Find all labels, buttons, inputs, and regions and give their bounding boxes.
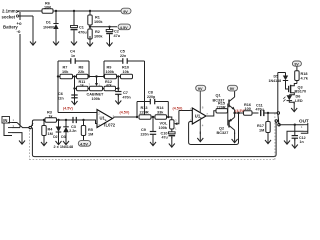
ground	[197, 132, 203, 142]
svg-text:1k: 1k	[80, 84, 84, 88]
ground	[87, 36, 93, 46]
svg-text:220R: 220R	[217, 105, 226, 109]
svg-text:IN: IN	[3, 118, 7, 123]
wire switch to OUT tip	[279, 124, 304, 126]
svg-text:1M: 1M	[259, 129, 264, 133]
svg-text:4.5V: 4.5V	[120, 26, 128, 30]
svg-text:C8: C8	[148, 91, 153, 95]
ground	[169, 137, 175, 147]
resistor R3 1k	[45, 111, 57, 123]
jack J2 OUT	[299, 118, 309, 133]
DC power socket label	[2, 9, 19, 20]
capacitor C8 220p	[147, 91, 156, 105]
svg-text:b: b	[200, 116, 202, 120]
svg-text:9V: 9V	[123, 10, 128, 14]
svg-text:R9: R9	[107, 66, 112, 70]
capacitor C9 220n	[141, 117, 157, 137]
resistor R2 100k	[88, 29, 104, 39]
node R right bridged-T	[104, 61, 145, 117]
svg-text:22n: 22n	[120, 54, 126, 58]
node: 9V rail wire top	[17, 10, 121, 12]
capacitor C6 22n	[58, 92, 78, 101]
wire pin4 to ground	[200, 120, 204, 135]
svg-text:(4.5V): (4.5V)	[120, 111, 131, 115]
net label 9V oval U1b supply	[196, 85, 206, 91]
diode D2 1N4148	[53, 120, 61, 139]
svg-text:R7: R7	[63, 66, 68, 70]
footswitch S1a input side	[29, 120, 44, 129]
svg-text:10R: 10R	[44, 6, 51, 10]
svg-text:33k: 33k	[157, 111, 164, 115]
svg-text:100k: 100k	[106, 70, 115, 74]
svg-text:47u: 47u	[114, 34, 121, 38]
net label 4.5V oval (bias)	[78, 141, 91, 147]
wire pin3 jog	[94, 120, 97, 124]
svg-text:1n: 1n	[300, 140, 304, 144]
ground	[53, 35, 59, 45]
annotation 4.5V red output U1a	[120, 111, 131, 115]
ground	[63, 135, 69, 145]
svg-text:220p: 220p	[147, 95, 156, 99]
resistor R12 47k	[103, 80, 119, 91]
svg-text:R18: R18	[301, 72, 308, 76]
wire feedback loop U1b	[189, 112, 240, 145]
svg-text:BC327: BC327	[217, 131, 229, 135]
svg-text:LED: LED	[295, 99, 303, 103]
resistor R1 100k	[88, 11, 104, 29]
resistor R9 100k	[105, 66, 117, 79]
wire socket sleeve	[19, 16, 33, 36]
svg-text:(4.5V): (4.5V)	[173, 107, 184, 111]
label 2 x 1N4148	[54, 145, 74, 149]
op-amp U1b TL072	[190, 107, 209, 124]
svg-text:100: 100	[245, 107, 251, 111]
wire inverting input feedback	[58, 112, 97, 114]
svg-text:9V: 9V	[294, 63, 299, 67]
svg-text:C9: C9	[141, 128, 146, 132]
wire right T leg	[117, 77, 119, 92]
wire bypass down from switch	[32, 122, 276, 157]
wire left T leg	[73, 77, 75, 96]
svg-text:220R: 220R	[140, 111, 149, 115]
resistor R7 10k	[60, 66, 73, 79]
wire jack sleeve to ground	[12, 133, 22, 134]
ground	[150, 136, 156, 146]
svg-text:D2: D2	[53, 135, 57, 139]
ground	[115, 94, 121, 104]
svg-text:1k: 1k	[49, 114, 53, 118]
svg-text:100k: 100k	[94, 35, 103, 39]
wire millennium sense	[278, 73, 286, 113]
ground	[71, 35, 77, 45]
svg-text:10k: 10k	[123, 70, 130, 74]
svg-text:C1: C1	[79, 26, 84, 30]
svg-text:BS170: BS170	[295, 90, 307, 94]
resistor R6 10R	[42, 2, 53, 14]
svg-text:TL072: TL072	[103, 123, 116, 128]
svg-text:R8: R8	[79, 66, 84, 70]
svg-text:VOL: VOL	[160, 122, 168, 126]
svg-text:R14: R14	[157, 106, 165, 110]
ground	[232, 133, 238, 143]
wire U1a output row	[113, 116, 139, 119]
svg-text:1N4001: 1N4001	[43, 26, 56, 30]
node L left bridged-T	[57, 61, 89, 113]
svg-text:1M: 1M	[88, 133, 93, 137]
svg-text:9V: 9V	[230, 87, 235, 91]
svg-text:-o: -o	[17, 29, 21, 34]
ground	[291, 102, 297, 112]
svg-text:220n: 220n	[141, 133, 149, 137]
svg-text:R13: R13	[141, 106, 148, 110]
svg-text:22k: 22k	[78, 70, 85, 74]
svg-text:100k: 100k	[94, 20, 103, 24]
svg-text:C7: C7	[123, 91, 128, 95]
transistor Q2 BC327	[217, 113, 235, 135]
op-amp U1a TL072	[97, 110, 116, 128]
capacitor C2 47u	[106, 27, 121, 38]
capacitor C3 2.2n	[69, 117, 76, 133]
ground	[56, 135, 62, 145]
net label 9V oval millennium	[292, 61, 301, 67]
svg-text:CABINET: CABINET	[87, 93, 105, 97]
potentiometer VOL 100k	[159, 111, 179, 131]
svg-text:9V: 9V	[198, 87, 203, 91]
ground	[41, 136, 47, 146]
ground	[265, 134, 271, 144]
svg-text:D1: D1	[46, 21, 51, 25]
annotation 4.5V red U1b input	[173, 107, 184, 111]
wire emitter output node	[233, 112, 243, 114]
resistor R17 1M	[257, 113, 270, 135]
wire pin8 supply	[200, 91, 204, 112]
transistor Q1 BC337	[213, 91, 235, 113]
footswitch mechanical link (dashed)	[29, 112, 275, 160]
svg-text:Q1: Q1	[216, 94, 221, 98]
resistor R14 33k	[151, 106, 170, 119]
ground	[292, 138, 298, 148]
svg-text:R10: R10	[122, 66, 129, 70]
capacitor C5 22n	[120, 50, 127, 64]
wire jack ring to battery minus	[12, 127, 20, 129]
wire input row	[43, 119, 94, 121]
annotation 4.5V red emitter	[235, 109, 246, 113]
wire U1b out to R15	[206, 111, 216, 116]
svg-text:470n: 470n	[123, 96, 131, 100]
footswitch S1b output side	[275, 112, 280, 126]
resistor R16 100R	[244, 103, 259, 115]
svg-text:(4.5V): (4.5V)	[63, 107, 74, 111]
diode D5 1N4148	[269, 73, 289, 83]
capacitor C10 47u	[161, 129, 176, 140]
svg-text:470u: 470u	[78, 31, 87, 35]
ground	[284, 134, 290, 144]
svg-text:C2: C2	[114, 30, 119, 34]
ground	[72, 95, 78, 105]
svg-text:2.1mm: 2.1mm	[2, 9, 16, 14]
svg-text:4.5V: 4.5V	[80, 142, 88, 146]
resistor R8 22k	[73, 66, 89, 79]
net label 9V oval Q1	[228, 85, 238, 91]
diode D1 1N4001	[43, 11, 59, 36]
loop C8 over R13 R14	[137, 102, 168, 118]
wire OUT sleeve to ground	[287, 131, 304, 134]
net label 4.5V oval	[118, 24, 131, 30]
svg-text:C5: C5	[120, 50, 125, 54]
resistor R13 220R	[139, 106, 151, 119]
resistor R10 10k	[117, 66, 133, 79]
svg-text:2 x 1N4148: 2 x 1N4148	[54, 145, 74, 149]
svg-text:C6: C6	[58, 92, 63, 96]
svg-text:1M: 1M	[48, 132, 53, 136]
svg-text:47k: 47k	[106, 84, 112, 88]
transistor Q3 BS170 mosfet	[286, 81, 307, 95]
resistor R15 220R	[216, 102, 228, 113]
wire jack tip to bypass switch	[12, 123, 29, 128]
svg-text:socket: socket	[2, 14, 16, 19]
net label 9V oval	[121, 8, 131, 14]
capacitor C11 470u	[256, 104, 278, 117]
svg-text:D3: D3	[61, 135, 65, 139]
svg-text:R17: R17	[257, 124, 264, 128]
svg-text:4.7k: 4.7k	[301, 77, 309, 81]
capacitor C12 1n	[292, 125, 306, 144]
svg-text:47u: 47u	[162, 136, 168, 140]
capacitor C1 470u	[71, 11, 88, 36]
svg-text:100k: 100k	[92, 97, 101, 101]
battery B1	[3, 12, 22, 128]
svg-text:R1: R1	[95, 16, 100, 20]
ground	[19, 134, 25, 144]
jack J1 IN	[2, 117, 15, 136]
wire U1b noninverting input	[179, 110, 192, 112]
svg-text:1n: 1n	[71, 54, 75, 58]
resistor R11 1k	[75, 80, 89, 91]
diode D6 LED	[283, 95, 303, 104]
ground	[107, 36, 113, 46]
ground	[30, 35, 36, 45]
svg-text:10k: 10k	[62, 70, 69, 74]
annotation 4.5V red	[63, 107, 74, 111]
svg-text:R5: R5	[88, 128, 93, 132]
capacitor C4 1n	[70, 50, 76, 64]
capacitor C7 470n	[115, 91, 131, 100]
svg-text:100k: 100k	[159, 126, 168, 130]
svg-text:R2: R2	[95, 30, 100, 34]
wire between T networks	[88, 75, 105, 77]
svg-text:22n: 22n	[58, 97, 64, 101]
wire base join Q1 Q2	[227, 104, 229, 126]
diode D3 1N4148	[61, 120, 69, 139]
node 4.5V mid-divider wire	[89, 26, 117, 28]
resistor R18 4.7k	[295, 66, 309, 83]
svg-text:2.2n: 2.2n	[69, 129, 76, 133]
svg-text:BC337: BC337	[213, 98, 225, 102]
svg-text:OUT: OUT	[299, 118, 309, 123]
svg-text:1N4148: 1N4148	[269, 79, 282, 83]
resistor R4 1M	[42, 120, 53, 137]
resistor R5 1M	[81, 120, 93, 140]
potentiometer CABSIM dual	[87, 77, 105, 102]
svg-text:470u: 470u	[256, 108, 264, 112]
